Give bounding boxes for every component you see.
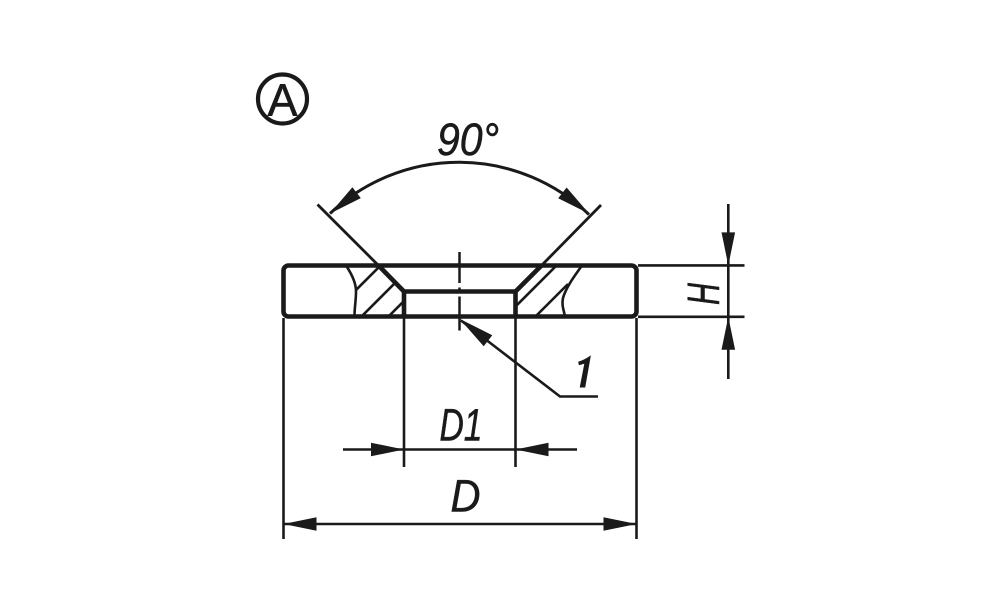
item number 1	[578, 355, 591, 387]
countersink extension line right	[542, 205, 602, 266]
extension line D1 right	[514, 318, 517, 467]
leader line for item 1	[461, 321, 598, 397]
break line right	[562, 266, 582, 317]
90° arc right arrowhead	[558, 188, 589, 214]
dimension line H	[727, 204, 730, 379]
extension line D left	[282, 318, 285, 539]
washer body outline	[284, 266, 637, 317]
H arrowhead top	[722, 232, 736, 265]
svg-text:H: H	[678, 283, 729, 305]
extension line D right	[635, 318, 638, 539]
countersink cone edge right	[516, 266, 542, 292]
leader arrowhead	[460, 319, 493, 347]
centre line (dash-dot)	[458, 252, 461, 331]
dimension line D	[284, 523, 637, 526]
svg-text:D1: D1	[440, 400, 483, 451]
svg-text:90°: 90°	[437, 114, 499, 165]
break line left	[346, 266, 356, 317]
svg-text:D: D	[451, 471, 481, 522]
90° arc left arrowhead	[330, 187, 361, 213]
D arrowhead right	[604, 517, 637, 531]
countersink cone edge left	[379, 266, 405, 292]
extension line H bottom	[638, 315, 745, 318]
view label A : circle	[258, 75, 307, 124]
90° dimension arc	[330, 162, 589, 214]
hatching right section	[505, 262, 568, 319]
bore outline (countersink bottom edge and bore walls)	[404, 292, 516, 317]
extension line H top	[638, 264, 745, 267]
svg-text:A: A	[267, 74, 297, 125]
countersink extension line left	[318, 205, 379, 266]
extension line D1 left	[403, 318, 406, 467]
dimension text H	[678, 283, 729, 305]
dimension line D1	[343, 448, 577, 451]
D1 arrowhead right	[516, 443, 549, 457]
D1 arrowhead left	[371, 443, 404, 457]
H arrowhead bottom	[722, 317, 736, 350]
D arrowhead left	[284, 517, 317, 531]
hatching left section	[344, 256, 412, 324]
